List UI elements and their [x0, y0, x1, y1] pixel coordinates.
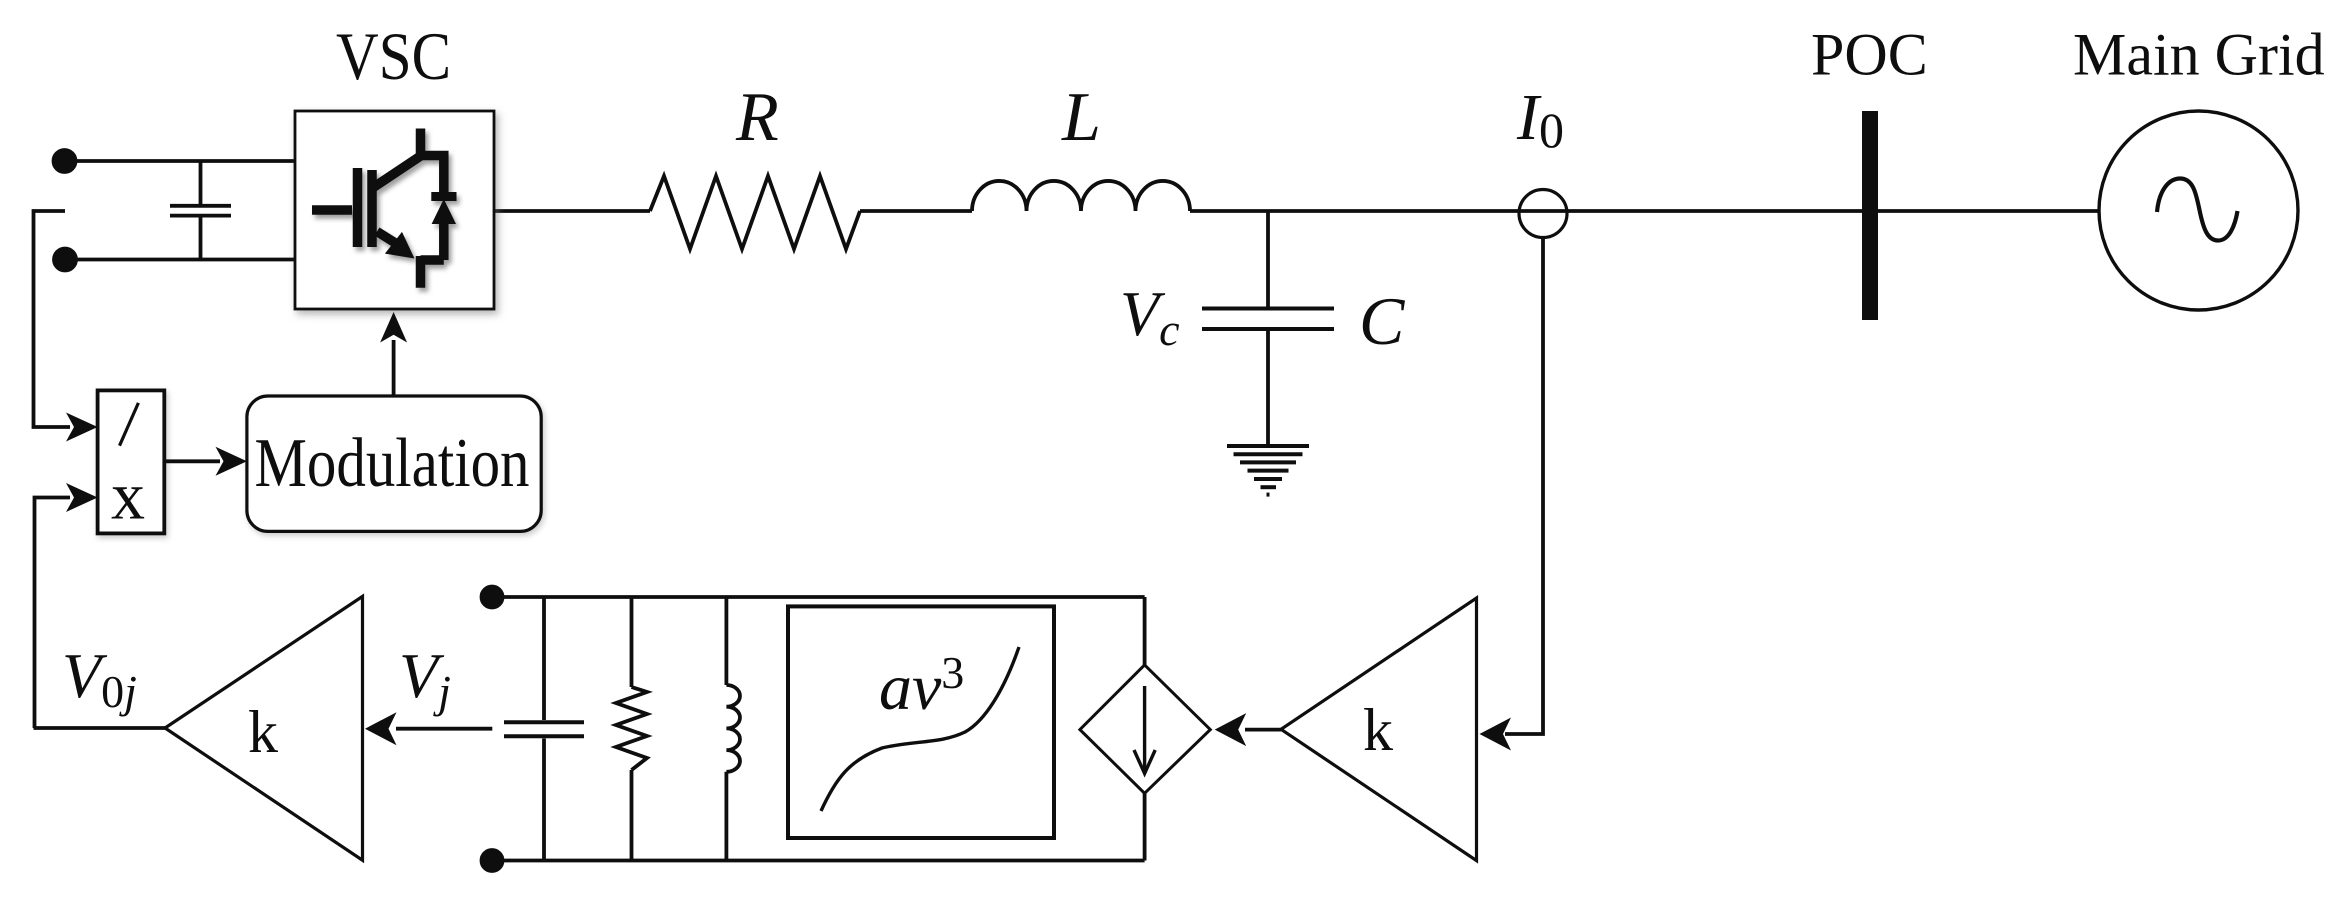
- svg-text:POC: POC: [1811, 22, 1928, 88]
- svg-text:k: k: [248, 699, 278, 765]
- svg-text:C: C: [1359, 283, 1405, 359]
- svg-text:x: x: [111, 458, 145, 534]
- svg-text:VSC: VSC: [336, 18, 451, 94]
- svg-text:R: R: [735, 79, 779, 156]
- svg-text:L: L: [1061, 79, 1101, 156]
- svg-text:Modulation: Modulation: [255, 425, 530, 502]
- svg-text:Main Grid: Main Grid: [2073, 22, 2325, 88]
- svg-text:k: k: [1363, 697, 1393, 763]
